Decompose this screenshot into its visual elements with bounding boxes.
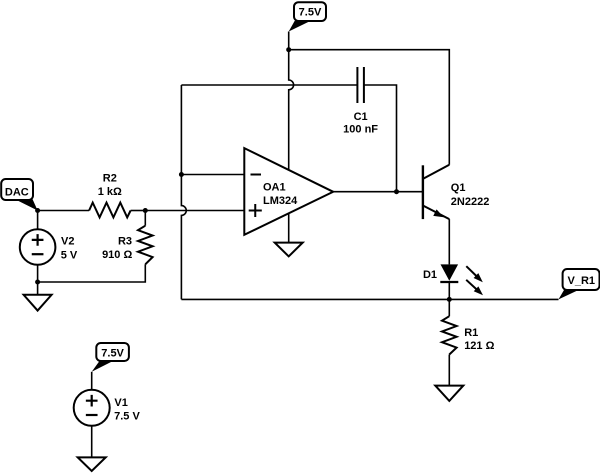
wire op-amp output: [333, 191, 422, 193]
net label DAC: [1, 179, 37, 211]
ground (R1): [435, 386, 463, 401]
svg-text:7.5 V: 7.5 V: [114, 411, 140, 423]
resistor R3: [38, 211, 153, 283]
junction 7.5V rail node: [286, 47, 291, 52]
wire feedback vertical (hops over plus-input wire): [181, 85, 186, 299]
svg-text:C1: C1: [354, 111, 368, 123]
junction DAC node: [35, 208, 40, 213]
svg-text:V_R1: V_R1: [568, 275, 596, 287]
wire DAC to R2: [38, 210, 90, 212]
wire emitter: [448, 219, 450, 264]
junction V2 minus / R3 return: [35, 280, 40, 285]
wire op-amp V- pin: [288, 213, 290, 242]
ground (op-amp): [275, 243, 303, 257]
svg-text:R3: R3: [118, 236, 132, 248]
svg-text:LM324: LM324: [263, 195, 298, 207]
wire C1 right to output node: [364, 85, 397, 192]
LED D1: [423, 264, 485, 297]
svg-text:121 Ω: 121 Ω: [464, 340, 494, 352]
transistor Q1: [423, 165, 489, 221]
op-amp non-inverting input marker: [249, 204, 262, 217]
net label 7.5V (top): [289, 2, 326, 31]
junction output / C1: [394, 189, 399, 194]
svg-text:100 nF: 100 nF: [343, 123, 378, 135]
svg-text:Q1: Q1: [451, 182, 466, 194]
net label V_R1: [559, 269, 600, 299]
op-amp inverting input marker: [251, 174, 262, 176]
svg-text:V1: V1: [114, 397, 127, 409]
op-amp OA1: [244, 148, 333, 235]
resistor R1: [442, 299, 495, 385]
svg-text:7.5V: 7.5V: [299, 7, 322, 19]
svg-text:D1: D1: [423, 269, 437, 281]
svg-text:R2: R2: [103, 173, 117, 185]
wire V2 to ground: [37, 265, 39, 295]
svg-text:OA1: OA1: [263, 181, 286, 193]
svg-text:DAC: DAC: [5, 186, 29, 198]
svg-text:5 V: 5 V: [61, 249, 78, 261]
wire 7.5V label lead: [288, 32, 290, 50]
svg-text:2N2222: 2N2222: [451, 196, 490, 208]
wire 7.5V supply to op-amp V+ (hops over feedback wire): [289, 50, 294, 170]
wire feedback top (to C1 left plate): [181, 84, 357, 86]
junction minus input feedback tap: [179, 172, 184, 177]
wire V1 to ground: [91, 426, 93, 458]
capacitor C1: [343, 67, 378, 135]
junction V_R1 node: [447, 297, 452, 302]
wire minus input: [181, 174, 244, 176]
svg-text:7.5V: 7.5V: [101, 347, 124, 359]
voltage source V1: [74, 390, 141, 426]
wire V_R1 horizontal: [181, 298, 558, 300]
voltage source V2: [20, 211, 78, 265]
ground (V2): [24, 295, 52, 311]
svg-text:910 Ω: 910 Ω: [102, 249, 132, 261]
wire plus input: [145, 210, 244, 212]
junction R2 / R3 / plus input: [143, 208, 148, 213]
wire 7.5V rail to Q1 collector: [289, 50, 450, 165]
svg-text:V2: V2: [61, 236, 74, 248]
resistor R2: [89, 173, 145, 218]
svg-text:R1: R1: [464, 327, 478, 339]
ground (V1): [78, 457, 106, 471]
net label 7.5V (V1): [92, 343, 129, 372]
wire V1 top: [91, 372, 93, 390]
svg-text:1 kΩ: 1 kΩ: [98, 186, 122, 198]
wire LED to V_R1 node: [448, 282, 450, 299]
